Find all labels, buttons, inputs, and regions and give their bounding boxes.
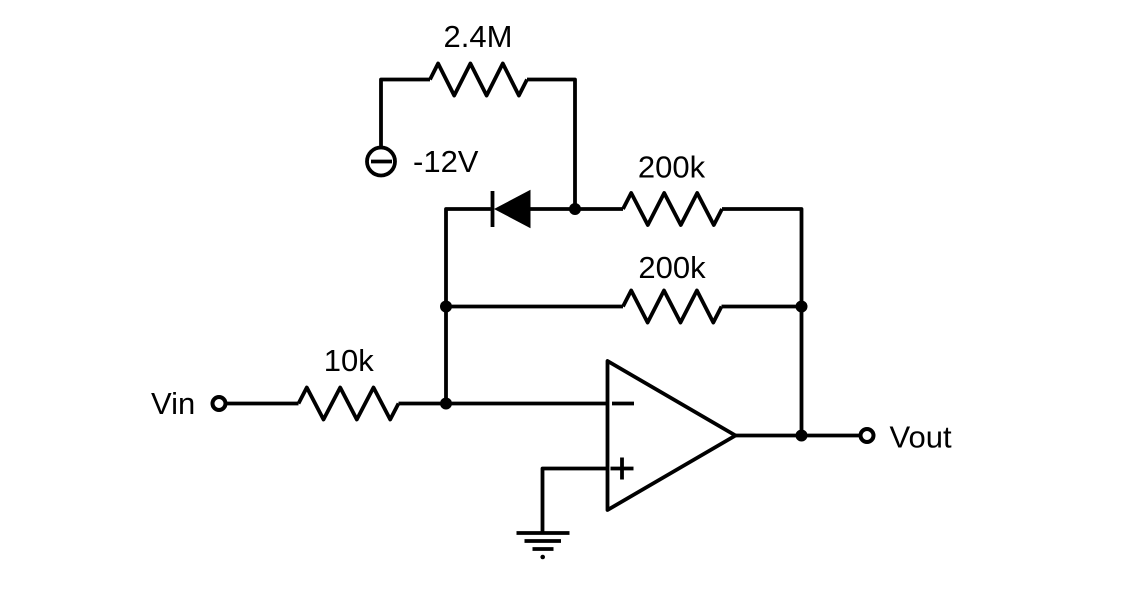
terminal Vout circle bbox=[861, 429, 874, 442]
wire node B to resistor R3 bbox=[446, 305, 623, 309]
svg-text:Vin: Vin bbox=[151, 386, 195, 421]
node D dot (inverting input junction) bbox=[440, 398, 452, 410]
wire R4 to op-amp inverting input bbox=[399, 402, 608, 406]
diode D1 triangle bbox=[494, 190, 531, 228]
svg-text:200k: 200k bbox=[638, 250, 706, 285]
wire R2 right down right rail bbox=[722, 209, 802, 436]
resistor R3 200k zigzag (middle) bbox=[623, 291, 722, 323]
node B dot (left rail / R3 junction) bbox=[440, 301, 452, 313]
node E dot (output / right rail junction) bbox=[796, 430, 808, 442]
wire R3 right to right rail bbox=[722, 305, 802, 309]
node C dot (right rail / R3 junction) bbox=[796, 301, 808, 313]
wire resistor R1 right down to diode node bbox=[527, 80, 575, 210]
node A dot (diode / R2 junction) bbox=[569, 203, 581, 215]
op-amp U1 minus sign bbox=[612, 402, 634, 406]
svg-text:2.4M: 2.4M bbox=[444, 19, 513, 54]
voltage source V1 minus bar bbox=[371, 160, 392, 164]
wire op-amp output to Vout terminal bbox=[736, 434, 862, 438]
op-amp U1 triangle bbox=[608, 361, 736, 510]
terminal Vin circle bbox=[213, 397, 226, 410]
wire left vertical to diode anode bbox=[446, 209, 491, 404]
ground symbol bbox=[517, 533, 570, 549]
wire source top to resistor R1 left bbox=[381, 80, 430, 147]
op-amp U1 plus sign bbox=[611, 458, 634, 480]
svg-text:10k: 10k bbox=[324, 343, 374, 378]
svg-text:Vout: Vout bbox=[890, 420, 952, 455]
resistor R4 10k zigzag bbox=[299, 388, 399, 420]
resistor R1 2.4M zigzag bbox=[430, 64, 527, 96]
svg-text:-12V: -12V bbox=[413, 144, 479, 179]
wire Vin terminal to resistor R4 bbox=[227, 402, 299, 406]
wire diode to node A bbox=[530, 207, 624, 211]
resistor R2 200k zigzag (top) bbox=[623, 193, 722, 225]
diode D1 cathode bar bbox=[491, 191, 495, 227]
svg-text:200k: 200k bbox=[638, 150, 706, 185]
ground dot bbox=[540, 555, 545, 560]
voltage source V1 circle bbox=[367, 148, 395, 176]
wire non-inverting input to ground bbox=[543, 469, 608, 534]
